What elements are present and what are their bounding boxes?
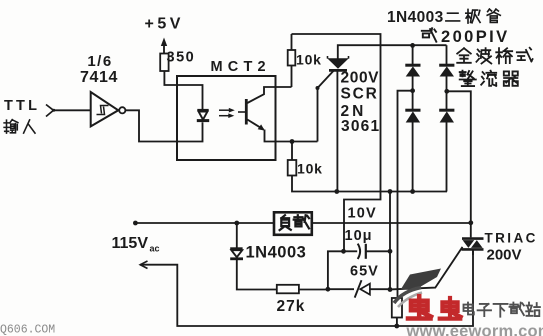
svg-text:200V: 200V <box>341 70 380 87</box>
watermark chongchong red <box>408 296 461 319</box>
LED inside MCT2 <box>197 110 209 120</box>
phototransistor collector <box>247 87 291 103</box>
label full-wave bridge <box>457 48 532 86</box>
svg-text:3061: 3061 <box>341 118 380 135</box>
label 1N4003 diodes chinese <box>387 9 500 26</box>
triac 200V <box>462 239 484 255</box>
label MCT2 <box>211 59 271 75</box>
label 1N4003 <box>246 244 307 262</box>
svg-text:1N4003: 1N4003 <box>246 244 307 262</box>
junction bridge top left <box>410 43 415 48</box>
diode 1N4003 <box>230 223 277 290</box>
svg-text:10V: 10V <box>348 206 377 222</box>
svg-text:350: 350 <box>167 50 196 66</box>
opto-isolator MCT2 box <box>177 76 276 160</box>
junction 1N4003 anode <box>234 221 239 226</box>
wire SCR anode rail <box>338 45 447 58</box>
schmitt hysteresis symbol <box>97 106 109 115</box>
wire cap branch <box>328 251 344 289</box>
diode D2 top-right <box>439 45 454 91</box>
svg-text:7414: 7414 <box>80 69 118 86</box>
svg-text:MCT2: MCT2 <box>211 59 271 75</box>
junction bottom rail <box>394 324 399 329</box>
junction bridge AC right <box>444 89 449 94</box>
input terminal chevron <box>46 105 55 117</box>
svg-text:10k: 10k <box>296 52 322 68</box>
resistor 350 <box>160 54 168 72</box>
power +5V label <box>145 16 184 33</box>
svg-text:ac: ac <box>150 244 160 254</box>
junction gate corner <box>316 86 320 90</box>
inverter output bubble <box>119 107 125 113</box>
label 115V ac <box>112 235 160 254</box>
label 27k <box>277 298 306 315</box>
wire AC right to TRIAC <box>447 91 471 237</box>
phototransistor emitter <box>247 120 317 142</box>
junction cathode-rail dot <box>388 189 393 194</box>
svg-text:TTL: TTL <box>4 98 40 114</box>
junction bridge bottom left <box>410 189 415 194</box>
junction SCR cathode <box>334 189 339 194</box>
capacitor C1 10u 65V <box>344 244 391 259</box>
junction gate line <box>388 287 393 292</box>
wire 10k to top rail <box>291 34 293 50</box>
diode D3 bottom-left <box>405 91 420 192</box>
label 200V SCR 2N 3061 <box>341 70 381 136</box>
wire neutral to bottom rail <box>140 251 473 326</box>
svg-text:+5V: +5V <box>145 16 184 33</box>
load box <box>274 212 312 235</box>
wire input to inverter <box>54 109 91 111</box>
svg-text:200PIV: 200PIV <box>441 28 510 46</box>
light arrows <box>219 108 235 118</box>
svg-text:1/6: 1/6 <box>87 53 112 70</box>
wire hot to load <box>135 222 274 224</box>
wire emitter to lower 10k <box>291 142 293 161</box>
op-amp U1 inverter 7414 triangle <box>91 92 119 126</box>
svg-text:10μ: 10μ <box>345 228 373 244</box>
junction cap right <box>388 249 393 254</box>
diode D4 bottom-right <box>439 91 454 191</box>
svg-text:27k: 27k <box>277 298 306 315</box>
resistor gate <box>392 298 402 326</box>
svg-text:www.eeworm.com: www.eeworm.com <box>406 323 543 336</box>
wire 27k to gate node <box>299 289 328 291</box>
svg-text:200V: 200V <box>487 247 522 264</box>
label TRIAC 200V <box>485 231 538 264</box>
watermark site name <box>464 303 540 317</box>
wire top rail <box>292 34 381 251</box>
junction TRIAC MT2 <box>468 220 473 225</box>
label 10k lower <box>297 161 323 177</box>
wire inverter output to LED cathode <box>125 110 202 141</box>
label 350 <box>167 50 196 66</box>
svg-text:Q606.COM: Q606.COM <box>0 324 55 336</box>
label 65V <box>350 264 379 280</box>
watermark url <box>406 323 543 336</box>
wire load to TRIAC <box>312 222 471 224</box>
power +5V arrow <box>161 38 167 54</box>
junction emitter-10k <box>290 139 295 144</box>
wire collector to resistor <box>291 66 293 88</box>
wire 350 to LED anode <box>164 71 202 109</box>
label 10u <box>345 228 373 244</box>
svg-text:65V: 65V <box>350 264 379 280</box>
wire gate to SCR <box>318 71 334 89</box>
resistor 10k lower <box>288 160 297 176</box>
resistor 27k <box>277 285 299 294</box>
watermark Q606.COM <box>0 324 55 336</box>
terminal 115V neutral arrow <box>140 261 147 269</box>
label 10k upper <box>296 52 322 68</box>
wire 10k lower to cathode line <box>292 176 447 192</box>
svg-text:115V: 115V <box>112 235 149 252</box>
phototransistor Q1 base <box>238 99 246 125</box>
diode D1 top-left <box>405 45 420 90</box>
label TTL input <box>4 98 40 133</box>
label 10V <box>348 206 377 222</box>
watermark hat logo <box>394 269 441 308</box>
wire gate riser <box>317 88 319 142</box>
label 1/6 7414 <box>80 53 118 86</box>
diode trigger <box>328 280 390 297</box>
thyristor SCR 2N3061 <box>327 56 349 192</box>
junction cap branch <box>326 287 331 292</box>
svg-text:10k: 10k <box>297 161 323 177</box>
junction cap left <box>341 249 346 254</box>
terminal 115V hot <box>133 221 138 226</box>
wire cathode line down <box>389 192 391 290</box>
resistor 10k upper <box>288 50 296 66</box>
junction bridge AC left <box>410 88 415 93</box>
svg-text:TRIAC: TRIAC <box>485 231 538 246</box>
svg-text:1N4003: 1N4003 <box>387 9 444 26</box>
label or 200PIV <box>422 28 510 46</box>
wire gate node to TRIAC gate <box>390 247 463 290</box>
wire AC left down <box>398 91 413 298</box>
svg-text:SCR: SCR <box>341 86 379 103</box>
